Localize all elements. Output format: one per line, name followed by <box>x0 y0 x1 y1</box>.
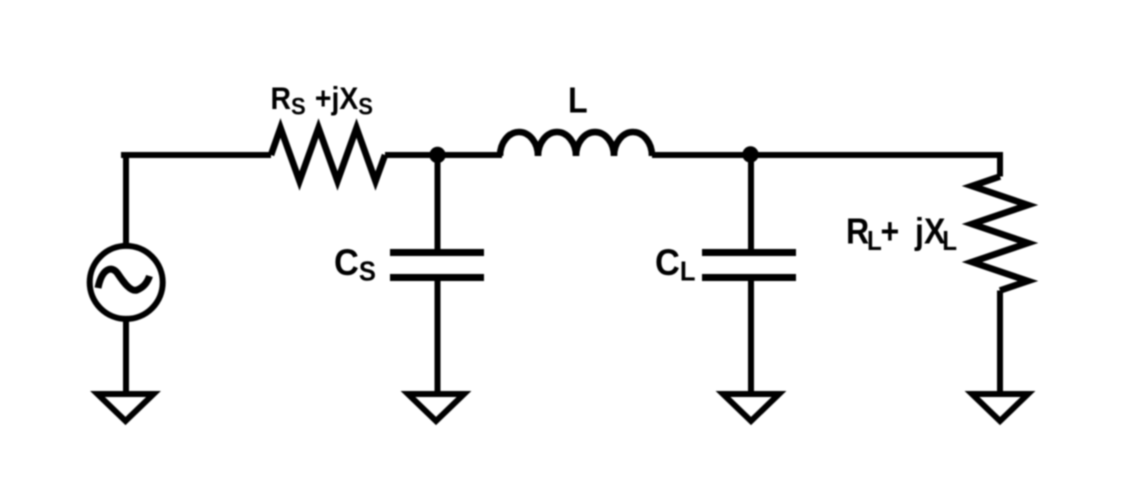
ground 2 (Cs) <box>408 394 464 421</box>
wire Rs to inductor <box>385 152 502 158</box>
wire Cs to ground 2 <box>435 281 441 397</box>
capacitor C_S top plate <box>390 249 484 256</box>
wire node B to CL <box>748 155 754 249</box>
AC source sine wave <box>98 269 150 290</box>
capacitor C_S bottom plate <box>390 274 484 281</box>
svg-text:CL: CL <box>655 242 695 287</box>
node B junction dot <box>742 146 758 162</box>
wire RL to ground 4 <box>997 291 1003 398</box>
ground 1 (source) <box>98 394 154 421</box>
wire inductor to right corner, corner down to RL <box>652 155 1000 177</box>
capacitor C_L top plate <box>702 249 796 256</box>
capacitor C_L bottom plate <box>702 274 796 281</box>
resistor R_L vertical zigzag <box>972 177 1028 291</box>
label CL <box>655 242 695 287</box>
label Rs +jXs <box>271 82 373 120</box>
svg-text:L: L <box>568 81 588 121</box>
label Cs <box>334 242 376 287</box>
wire source to ground 1 <box>123 319 129 397</box>
wire top-left horizontal (source to Rs) <box>121 152 271 158</box>
AC source circle V1 <box>90 246 163 319</box>
resistor R_S zigzag <box>271 128 385 181</box>
svg-text:RS +jXS: RS +jXS <box>271 82 373 120</box>
node A junction dot <box>429 147 445 163</box>
ground 3 (CL) <box>723 394 779 421</box>
wire source branch upper <box>123 155 129 246</box>
svg-text:RL+jXL: RL+jXL <box>846 212 957 257</box>
inductor L (4 arches) <box>500 132 652 156</box>
ground 4 (RL) <box>972 394 1028 421</box>
label RL + jXL <box>846 212 957 257</box>
label L <box>568 81 588 121</box>
wire node A to Cs <box>435 155 441 249</box>
wire CL to ground 3 <box>748 281 754 397</box>
svg-text:CS: CS <box>334 242 376 287</box>
